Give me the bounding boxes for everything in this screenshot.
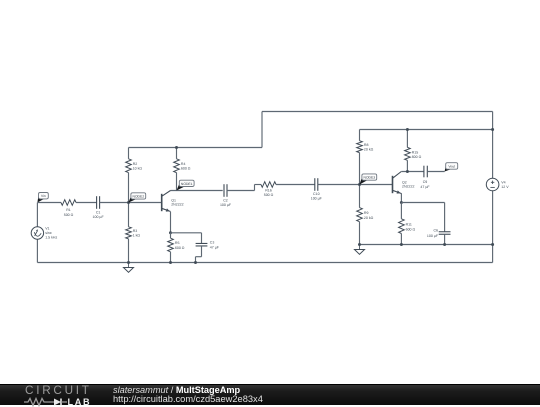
svg-text:R15: R15: [412, 150, 419, 154]
svg-text:Vout: Vout: [448, 165, 455, 169]
svg-text:C9: C9: [423, 180, 428, 184]
capacitor C6 100uF: [427, 203, 451, 245]
wire C2 to step: [227, 190, 255, 192]
svg-text:600 Ω: 600 Ω: [412, 155, 422, 159]
node NODE3 flag: [360, 174, 377, 185]
junction R15 top rail: [406, 128, 409, 131]
resistor R4 600: [174, 148, 191, 191]
wire top rail stage1: [129, 147, 263, 149]
svg-text:20 kΩ: 20 kΩ: [364, 216, 374, 220]
resistor R8 20k: [357, 130, 374, 185]
wire bottom ground rail: [37, 262, 492, 264]
wire C10 to Q2 base: [318, 184, 393, 186]
wire R1 to C1: [76, 202, 97, 204]
transistor Q2 2N2222: [393, 172, 415, 194]
junction rail2 right: [491, 128, 494, 131]
wire right drop to V4: [492, 112, 494, 179]
wire Q1 collector row: [171, 190, 223, 192]
wire step to R16: [255, 184, 262, 186]
node NODE3 junction: [358, 183, 361, 186]
svg-text:R4: R4: [181, 162, 186, 166]
svg-text:100 µF: 100 µF: [427, 234, 439, 238]
svg-text:C10: C10: [313, 192, 320, 196]
junction C3 ground rail: [194, 261, 197, 264]
capacitor C10 100uF: [311, 178, 323, 200]
svg-text:2N2222: 2N2222: [171, 203, 183, 207]
resistor R1 500: [61, 200, 76, 217]
svg-text:R1: R1: [66, 208, 71, 212]
svg-text:R2: R2: [133, 162, 138, 166]
wire riser stage1 to main rail: [261, 112, 263, 148]
capacitor C3 47uF: [196, 233, 220, 263]
junction R4 top rail: [175, 146, 178, 149]
wire C1 to Q1 base: [100, 202, 162, 204]
capacitor C2 100uF: [220, 184, 232, 207]
svg-text:NODE2: NODE2: [133, 194, 145, 198]
svg-text:Vin: Vin: [41, 194, 46, 198]
wire R16 to C10: [276, 184, 315, 186]
resistor R5 600: [168, 233, 185, 263]
svg-text:R3: R3: [133, 229, 138, 233]
svg-text:500 Ω: 500 Ω: [64, 213, 74, 217]
wire top rail stage2: [360, 129, 493, 131]
resistor R2 10k: [126, 148, 143, 203]
svg-text:1.5 kHz: 1.5 kHz: [45, 236, 57, 240]
svg-text:V4: V4: [501, 180, 505, 184]
svg-text:NODE1: NODE1: [181, 182, 193, 186]
svg-text:C2: C2: [223, 199, 228, 203]
svg-text:100 µF: 100 µF: [220, 203, 232, 207]
resistor R11 600: [399, 203, 416, 245]
junction R5 ground rail: [169, 261, 172, 264]
svg-text:C3: C3: [210, 241, 215, 245]
svg-text:100 µF: 100 µF: [93, 215, 105, 219]
wire Q2 emitter down: [400, 193, 402, 202]
svg-text:V1: V1: [45, 227, 49, 231]
wire step up: [254, 185, 256, 191]
svg-text:sine: sine: [45, 231, 52, 235]
svg-text:47 µF: 47 µF: [210, 245, 220, 249]
node NODE1 flag: [177, 180, 195, 190]
wire main top rail: [262, 111, 493, 113]
transistor Q1 2N2222: [162, 191, 184, 212]
ground stage2: [355, 245, 365, 255]
wire emitter to C6: [401, 202, 444, 204]
svg-text:C1: C1: [96, 210, 101, 214]
wire V1 to R1: [37, 202, 61, 204]
node NODE2 flag: [129, 193, 146, 203]
svg-text:600 Ω: 600 Ω: [406, 227, 416, 231]
resistor R3 1k: [126, 203, 141, 263]
junction local rail right: [491, 243, 494, 246]
footer title text: [113, 386, 263, 405]
svg-text:R5: R5: [175, 241, 180, 245]
voltage source V4 12V: [486, 178, 509, 191]
footer bar: [0, 384, 540, 405]
voltage source V1 sine: [31, 203, 57, 263]
wire Q2 collector row: [401, 171, 424, 173]
svg-text:R16: R16: [265, 188, 272, 192]
wire stage2 local rail: [360, 244, 493, 246]
resistor R9 20k: [357, 185, 374, 245]
svg-text:500 Ω: 500 Ω: [264, 193, 274, 197]
node Vout flag: [445, 163, 458, 172]
resistor R16 500: [261, 182, 276, 197]
capacitor C1 100uF: [93, 196, 105, 219]
svg-text:600 Ω: 600 Ω: [175, 246, 185, 250]
svg-text:NODE3: NODE3: [364, 176, 376, 180]
junction emitter node: [169, 231, 172, 234]
svg-text:20 kΩ: 20 kΩ: [364, 148, 374, 152]
junction R3 ground rail: [127, 261, 130, 264]
svg-text:R11: R11: [406, 223, 412, 227]
svg-text:1 kΩ: 1 kΩ: [133, 234, 141, 238]
svg-text:R8: R8: [364, 143, 369, 147]
node NODE2 junction: [127, 201, 130, 204]
node Vin flag: [37, 193, 48, 203]
svg-text:10 kΩ: 10 kΩ: [133, 167, 143, 171]
junction R9 local rail: [358, 243, 361, 246]
junction R11 local rail: [400, 243, 403, 246]
svg-text:12 V: 12 V: [501, 185, 509, 189]
svg-text:600 Ω: 600 Ω: [181, 167, 191, 171]
resistor R15 600: [405, 130, 422, 172]
capacitor C9 47uF: [420, 166, 430, 189]
wire Q1 emitter down: [170, 212, 172, 233]
junction C6 local rail: [443, 243, 446, 246]
svg-text:100 µF: 100 µF: [311, 197, 323, 201]
svg-text:C6: C6: [433, 228, 438, 232]
wire emitter to C3: [171, 232, 202, 234]
svg-text:R9: R9: [364, 211, 369, 215]
wire C9 to Vout: [427, 171, 444, 173]
junction Q2 emitter node: [400, 201, 403, 204]
ground stage1: [124, 263, 134, 273]
CircuitLab logo: [25, 385, 95, 406]
svg-text:47 µF: 47 µF: [420, 185, 430, 189]
junction R15 collector: [406, 170, 409, 173]
svg-text:2N2222: 2N2222: [402, 185, 414, 189]
wire V4 bottom to bottom rail: [492, 191, 494, 263]
